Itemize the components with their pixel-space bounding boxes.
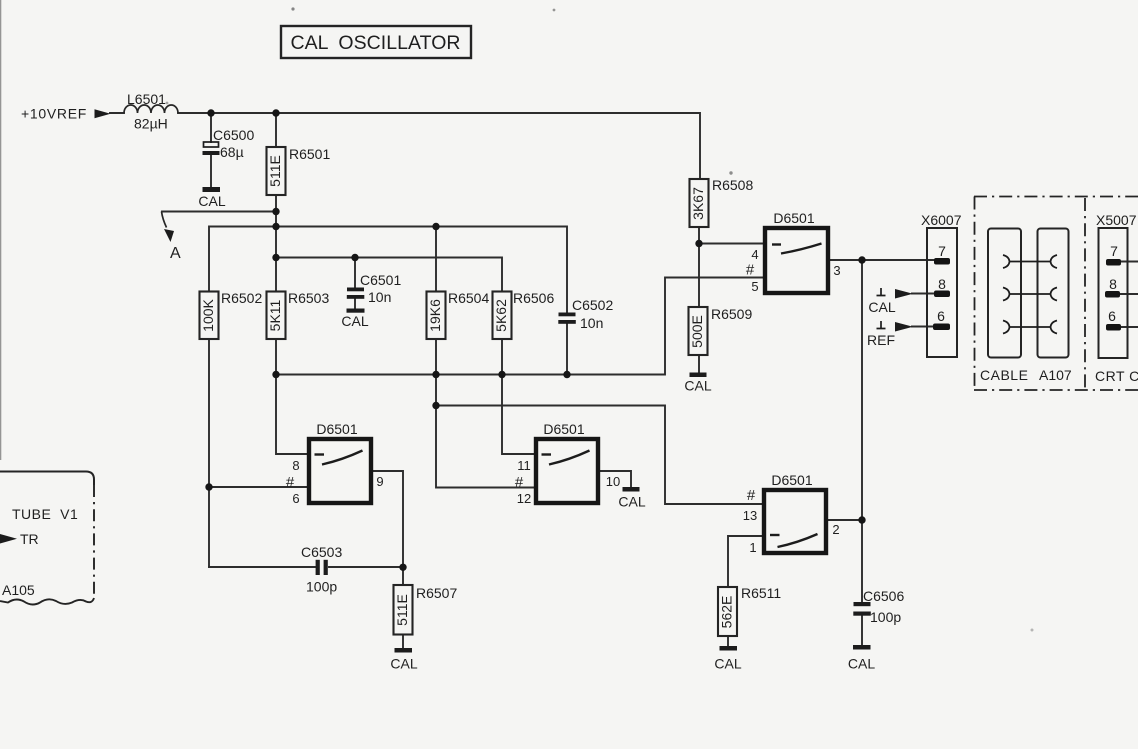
- svg-text:6: 6: [1108, 308, 1116, 324]
- svg-text:CAL: CAL: [684, 378, 711, 394]
- switch D6501 (pins 13,1,2): [743, 472, 840, 555]
- label CABLE A107: [980, 367, 1072, 383]
- svg-text:511E: 511E: [267, 155, 283, 187]
- svg-text:100p: 100p: [870, 609, 901, 625]
- svg-text:CAL OSCILLATOR: CAL OSCILLATOR: [291, 32, 462, 54]
- wire pin6 feed: [209, 486, 307, 488]
- svg-text:X5007: X5007: [1096, 212, 1137, 228]
- wire long vertical from pin3 node to C6506: [861, 260, 863, 645]
- svg-text:D6501: D6501: [771, 472, 812, 488]
- svg-text:R6502: R6502: [221, 290, 262, 306]
- svg-text:C6502: C6502: [572, 297, 613, 313]
- svg-text:100p: 100p: [306, 579, 337, 595]
- ground CAL under R6509: [684, 373, 711, 394]
- svg-text:TR: TR: [20, 531, 39, 547]
- resistor R6507: [394, 585, 458, 635]
- resistor R6506: [493, 290, 555, 339]
- svg-text:5K11: 5K11: [267, 299, 283, 331]
- wire bus to R6506 and C6501: [276, 258, 502, 292]
- node A arrow: [162, 212, 182, 263]
- capacitor C6501: [347, 272, 402, 305]
- cable connector housing right: [1038, 229, 1069, 358]
- svg-text:CAL: CAL: [618, 494, 645, 510]
- svg-text:6: 6: [292, 491, 299, 506]
- svg-text:511E: 511E: [394, 594, 410, 626]
- svg-text:7: 7: [1110, 243, 1118, 259]
- svg-text:R6506: R6506: [513, 290, 554, 306]
- node dot C6500 tap: [207, 109, 214, 116]
- svg-text:7: 7: [938, 243, 946, 259]
- scan speck: [553, 9, 556, 12]
- svg-text:R6508: R6508: [712, 177, 753, 193]
- ground CAL under C6501: [341, 309, 368, 330]
- wire C6501 leads: [354, 257, 356, 309]
- wire X5007 pin leads exiting right: [1119, 262, 1138, 328]
- wire R6507 leads: [402, 567, 404, 648]
- node dot A bus: [272, 208, 279, 215]
- wire R6508 lower lead to R6509: [698, 228, 700, 372]
- svg-text:R6501: R6501: [289, 146, 330, 162]
- node dot bus D at R6504: [432, 223, 439, 230]
- svg-text:CRT CI: CRT CI: [1095, 368, 1138, 384]
- wire R6502 lower lead down to C6503 row: [208, 339, 210, 567]
- node dot bus A at C6502: [563, 371, 570, 378]
- ground CAL at pin 10: [618, 487, 645, 510]
- svg-text:D6501: D6501: [543, 421, 584, 437]
- svg-text:8: 8: [1109, 276, 1117, 292]
- block TUBE V1 / A105: [0, 472, 94, 605]
- node dot bus A at R6504 line: [432, 371, 439, 378]
- ground CAL under C6500: [198, 187, 225, 209]
- svg-text:A: A: [170, 245, 181, 262]
- inductor L6501: [124, 91, 178, 132]
- svg-text:12: 12: [517, 491, 531, 506]
- net label +10VREF with arrow: [21, 106, 111, 122]
- node dot C6503 R6507 junction: [399, 564, 406, 571]
- wire C6503 row: [209, 566, 403, 568]
- svg-text:5: 5: [751, 279, 758, 294]
- net CAL arrow into pin 8: [868, 288, 913, 315]
- net REF arrow into pin 6: [867, 321, 913, 348]
- wire R6506 lower lead and pin11 feed: [502, 339, 534, 454]
- scan speck: [291, 7, 294, 10]
- svg-text:C6501: C6501: [360, 272, 401, 288]
- svg-text:D6501: D6501: [773, 210, 814, 226]
- svg-text:#: #: [286, 474, 295, 491]
- wire REF arrow to X6007 pin6: [912, 326, 936, 328]
- connector X5007: [1096, 212, 1137, 358]
- svg-text:4: 4: [751, 247, 758, 262]
- resistor R6501: [267, 146, 331, 195]
- svg-text:R6507: R6507: [416, 585, 457, 601]
- svg-text:A107: A107: [1039, 367, 1072, 383]
- node dot bus E at R6501 line: [272, 254, 279, 261]
- svg-text:562E: 562E: [719, 596, 735, 629]
- wire CAL arrow to X6007 pin8: [912, 293, 936, 295]
- wire bus to R6502 and C6502: [209, 227, 567, 314]
- svg-text:CAL: CAL: [198, 193, 225, 209]
- svg-text:9: 9: [376, 474, 383, 489]
- svg-text:CAL: CAL: [714, 656, 741, 672]
- capacitor C6503: [301, 544, 342, 595]
- svg-text:X6007: X6007: [921, 212, 962, 228]
- svg-text:CAL: CAL: [848, 656, 875, 672]
- svg-text:+10VREF: +10VREF: [21, 106, 87, 122]
- cable wire row 7: [1003, 255, 1057, 268]
- wire pin4 feed: [699, 243, 763, 245]
- cable wire row 6: [1003, 321, 1057, 334]
- resistor R6504: [427, 290, 490, 339]
- svg-text:11: 11: [517, 458, 531, 473]
- svg-text:CAL: CAL: [390, 656, 417, 672]
- svg-text:TUBE V1: TUBE V1: [12, 506, 78, 522]
- node dot R6508 R6509 pin4 junction: [695, 240, 702, 247]
- wire C6500 branch: [210, 113, 212, 187]
- svg-text:3: 3: [833, 263, 840, 278]
- scan speck: [1031, 629, 1034, 632]
- svg-text:R6511: R6511: [741, 585, 781, 601]
- svg-text:C6506: C6506: [863, 588, 904, 604]
- wire R6504 leads and pin12 feed: [436, 226, 534, 488]
- svg-text:8: 8: [938, 276, 946, 292]
- ground CAL under R6511: [714, 646, 741, 672]
- node dot bus A at R6503: [272, 371, 279, 378]
- connector X6007: [921, 212, 962, 357]
- ground CAL under R6507: [390, 648, 417, 672]
- svg-text:82µH: 82µH: [134, 116, 168, 132]
- svg-text:REF: REF: [867, 332, 895, 348]
- cable wire row 8: [1003, 288, 1057, 301]
- svg-text:2: 2: [832, 522, 839, 537]
- wire pin9 to C6503 node: [373, 471, 403, 567]
- node dot pin2 junction: [858, 516, 865, 523]
- wire R6511 lower lead: [727, 636, 729, 646]
- wire R6501 vertical through node A bus: [275, 113, 277, 291]
- svg-text:#: #: [747, 487, 756, 504]
- resistor R6511: [718, 585, 781, 636]
- capacitor C6500: [203, 127, 255, 160]
- wire R6503 lower lead: [275, 339, 277, 374]
- title box CAL OSCILLATOR: [281, 26, 471, 58]
- svg-text:5K62: 5K62: [493, 299, 509, 332]
- svg-text:10n: 10n: [368, 289, 391, 305]
- ground CAL under C6506: [848, 645, 875, 672]
- cable connector housing left: [988, 229, 1021, 358]
- svg-text:R6504: R6504: [448, 290, 489, 306]
- svg-text:CAL: CAL: [341, 313, 368, 329]
- scan edge artifact left border: [0, 0, 1, 460]
- svg-text:68µ: 68µ: [220, 144, 244, 160]
- resistor R6508: [690, 177, 754, 227]
- switch D6501 (pins 4,5,3): [746, 210, 841, 294]
- svg-text:#: #: [515, 474, 524, 491]
- switch D6501 (pins 11,12,10): [515, 421, 620, 506]
- switch D6501 (pins 8,6,9): [286, 421, 384, 506]
- node dot pin6 tap: [205, 483, 212, 490]
- wire pin1 to R6511: [728, 536, 762, 587]
- node dot R6501 tap: [272, 109, 279, 116]
- svg-text:C6500: C6500: [213, 127, 254, 143]
- wire C6502 lower lead: [566, 324, 568, 374]
- svg-text:R6503: R6503: [288, 290, 329, 306]
- node dot pin3 junction: [858, 256, 865, 263]
- wire bottom bus A with riser to pin5: [276, 278, 763, 375]
- scan speck: [166, 102, 169, 105]
- node dot bus E at C6501: [351, 254, 358, 261]
- wire bus B to pin13: [436, 406, 762, 505]
- svg-text:D6501: D6501: [316, 421, 357, 437]
- svg-text:#: #: [746, 262, 755, 279]
- svg-text:13: 13: [743, 508, 757, 523]
- svg-text:1: 1: [749, 540, 756, 555]
- wire pin3 to X6007 pin7: [830, 259, 936, 261]
- wire pin8 feed: [276, 374, 307, 454]
- wire pin2 to vertical: [828, 519, 862, 521]
- svg-text:3K67: 3K67: [690, 187, 706, 220]
- svg-text:CABLE: CABLE: [980, 367, 1028, 383]
- svg-text:R6509: R6509: [711, 306, 752, 322]
- resistor R6503: [267, 290, 330, 339]
- capacitor C6502: [558, 297, 613, 331]
- svg-text:6: 6: [937, 308, 945, 324]
- svg-text:10: 10: [606, 474, 620, 489]
- node dot bus D at R6501 line: [272, 223, 279, 230]
- svg-text:L6501: L6501: [127, 91, 166, 107]
- svg-text:8: 8: [292, 458, 299, 473]
- resistor R6502: [200, 290, 263, 339]
- node dot bus A at R6506 line: [498, 371, 505, 378]
- wire node A bus: [162, 211, 276, 213]
- resistor R6509: [689, 306, 753, 355]
- svg-text:19K6: 19K6: [427, 299, 443, 332]
- wire main +10VREF rail to R6508: [110, 113, 700, 179]
- svg-text:500E: 500E: [689, 315, 705, 348]
- svg-text:100K: 100K: [200, 298, 216, 331]
- svg-text:CAL: CAL: [868, 299, 895, 315]
- svg-text:A105: A105: [2, 582, 35, 598]
- svg-text:C6503: C6503: [301, 544, 342, 560]
- capacitor C6506: [853, 588, 904, 625]
- wire pin10 to CAL: [600, 471, 631, 488]
- scan speck: [729, 171, 732, 174]
- node dot bus B start: [432, 402, 439, 409]
- svg-text:10n: 10n: [580, 315, 603, 331]
- cable block dash-dot frame: [974, 197, 1138, 391]
